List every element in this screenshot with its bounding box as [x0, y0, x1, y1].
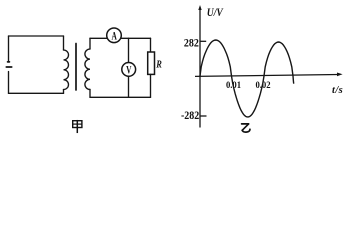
wire: primary loop top	[9, 35, 64, 37]
wire: primary loop left upper (source lead)	[8, 36, 10, 62]
transformer T1 primary winding	[64, 50, 69, 90]
svg-text:R: R	[155, 60, 161, 71]
svg-text:A: A	[112, 30, 118, 43]
graph y-axis	[199, 8, 201, 128]
wire: primary coil bottom lead	[63, 90, 65, 94]
svg-text:282: 282	[184, 37, 199, 50]
x-axis arrowhead	[337, 73, 343, 77]
tick -282	[200, 115, 207, 117]
svg-text:V: V	[126, 64, 132, 77]
source terminal lower dash	[6, 66, 11, 68]
graph x-axis	[195, 75, 339, 77]
wire: primary coil top lead	[63, 36, 65, 50]
source terminal upper dash	[8, 61, 10, 63]
svg-text:U/V: U/V	[207, 6, 224, 19]
svg-text:-282: -282	[181, 109, 200, 122]
wire: right branch upper (to resistor)	[150, 38, 152, 52]
figure label 乙 (drawn)	[242, 124, 250, 132]
wire: voltmeter branch upper	[128, 38, 130, 62]
y-axis arrowhead	[198, 5, 201, 10]
wire: right branch lower (from resistor)	[150, 74, 152, 97]
wire: secondary coil bottom lead	[89, 90, 91, 98]
sine curve U(t)	[200, 40, 294, 117]
wire: secondary loop top	[90, 37, 151, 39]
transformer core	[75, 44, 77, 91]
wire: voltmeter branch lower	[128, 76, 130, 97]
transformer T1 secondary winding	[85, 49, 90, 89]
tick +282	[200, 40, 207, 42]
voltmeter V (circle)	[122, 63, 136, 77]
wire: primary loop left lower (source lead)	[8, 72, 10, 94]
ammeter A (circle)	[107, 28, 122, 43]
resistor R	[148, 52, 155, 74]
figure label 甲 (drawn)	[73, 121, 82, 133]
wire: secondary coil top lead	[89, 38, 91, 49]
svg-text:t/s: t/s	[332, 85, 343, 96]
wire: primary loop bottom	[9, 92, 64, 94]
wire: secondary loop bottom	[90, 96, 151, 98]
